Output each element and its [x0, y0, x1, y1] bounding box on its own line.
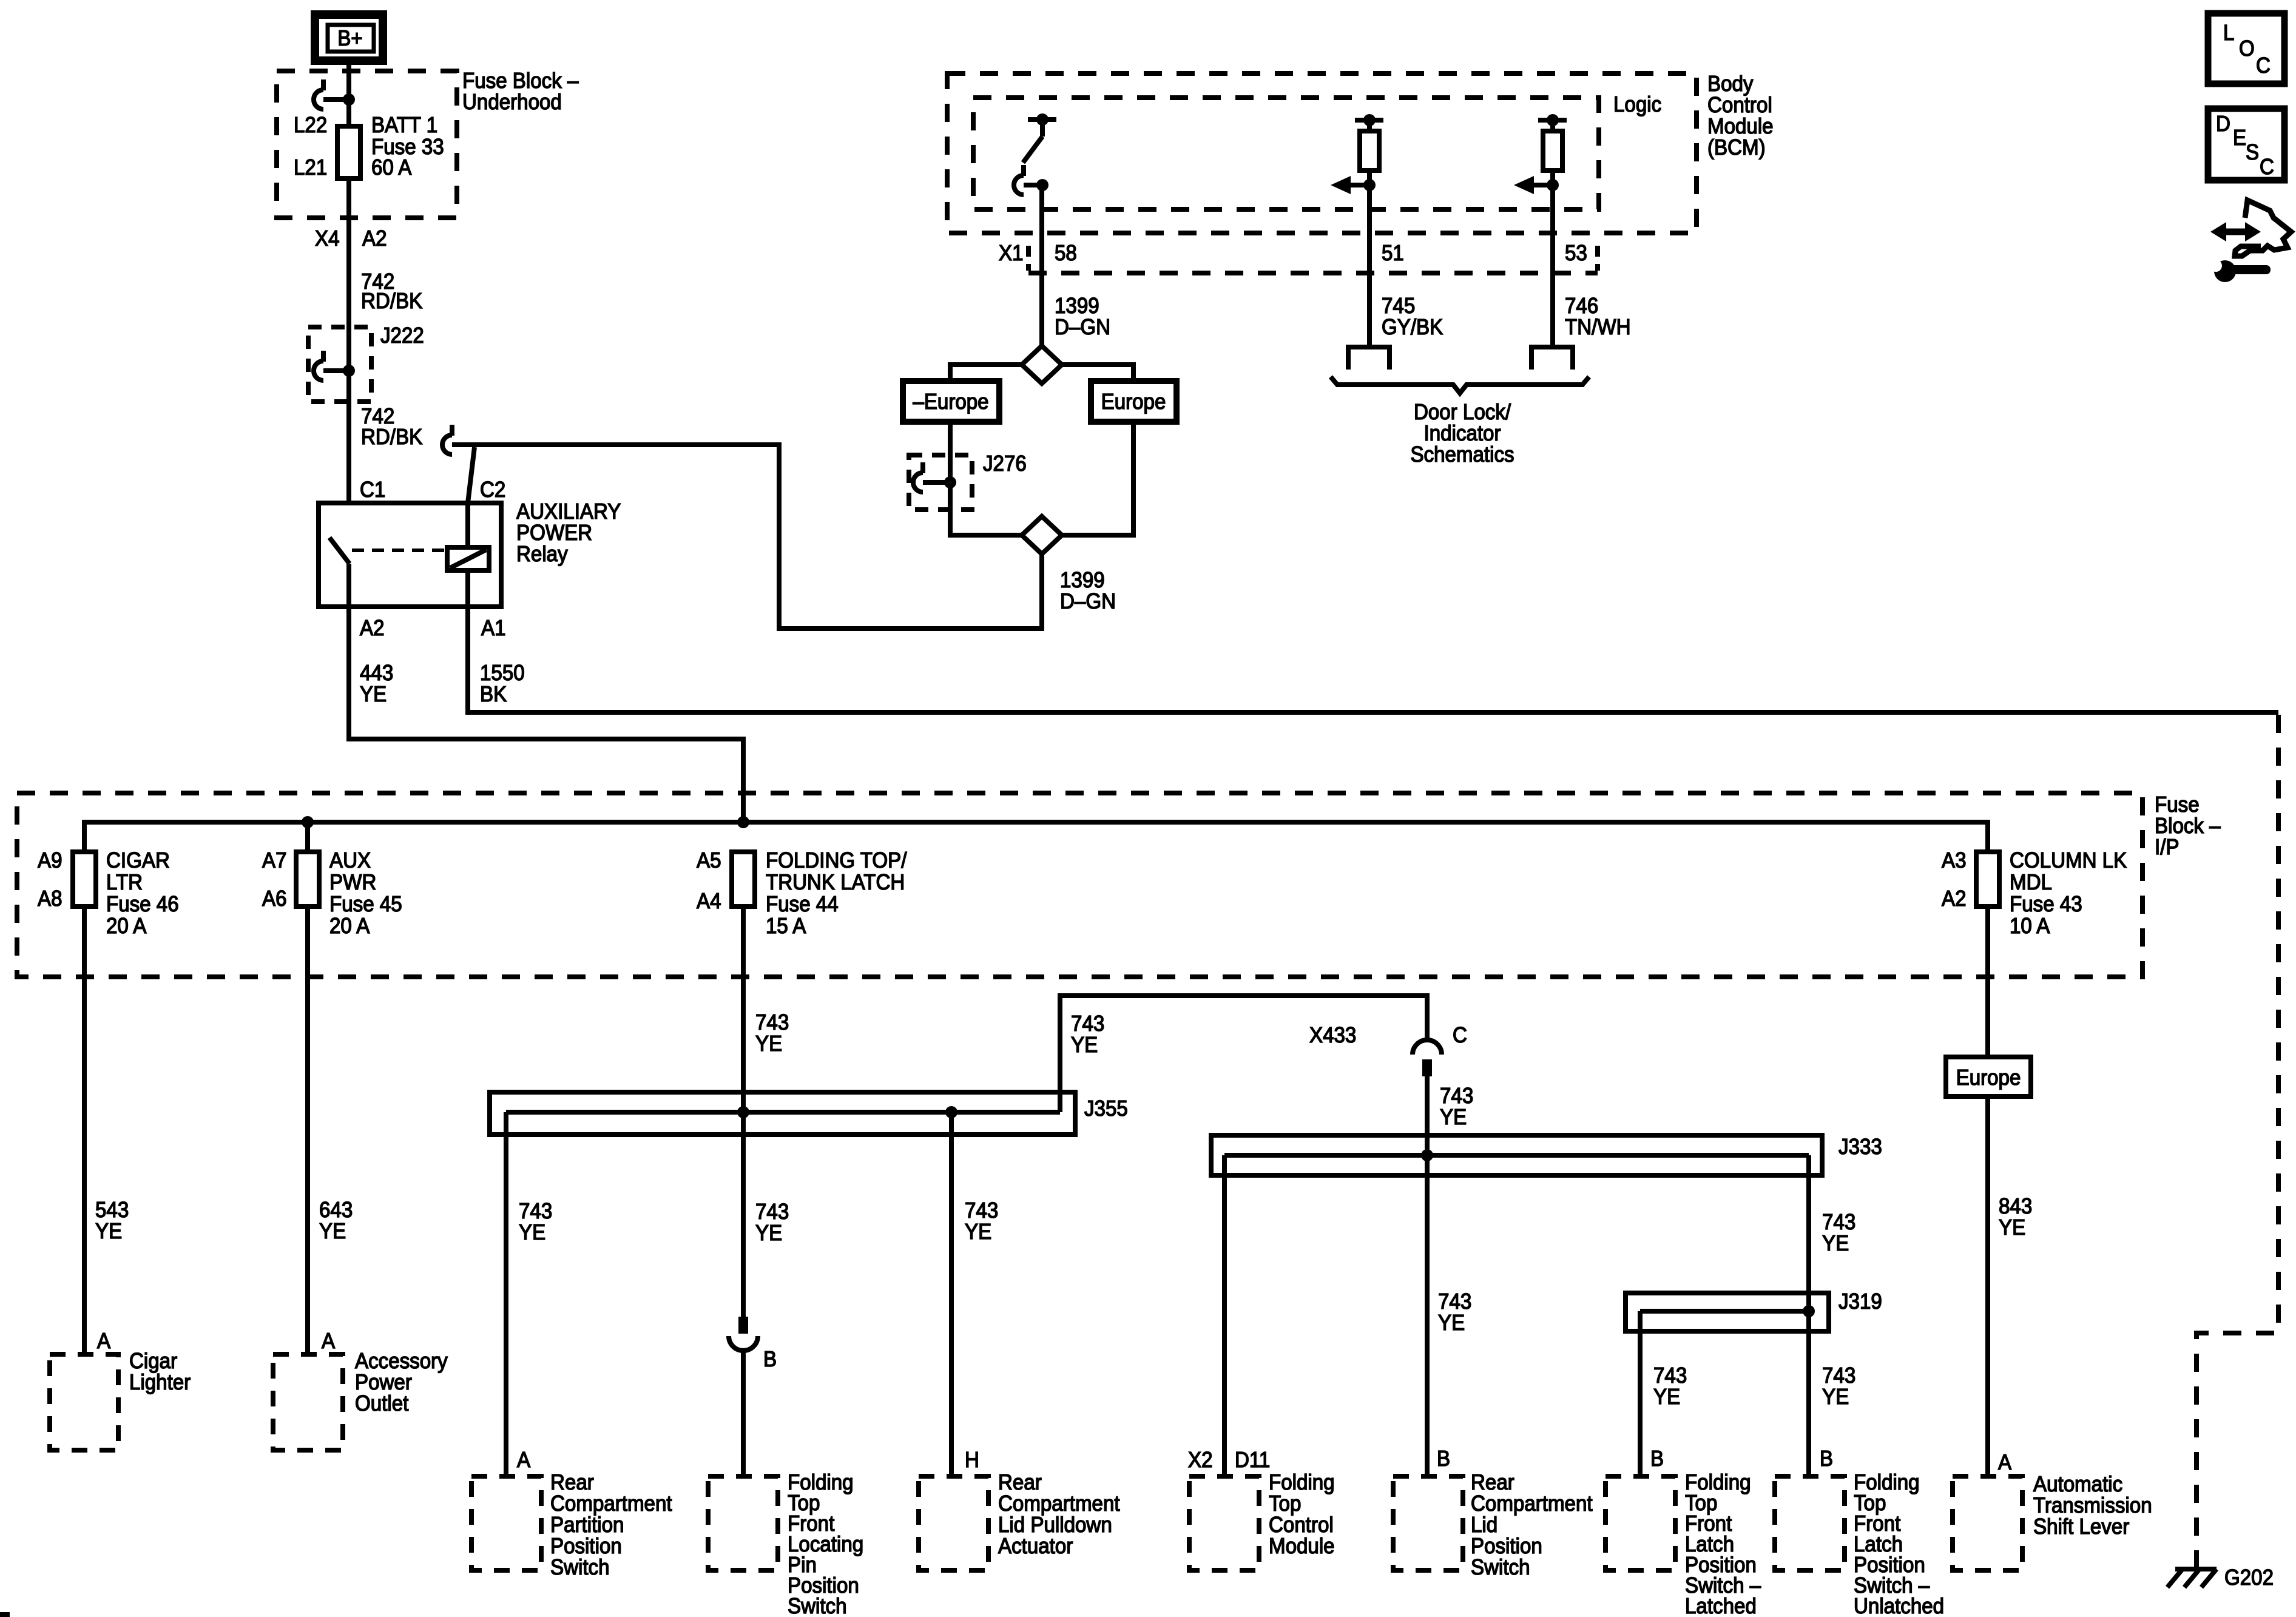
svg-text:Europe: Europe	[1101, 390, 1166, 414]
svg-text:J276: J276	[983, 452, 1027, 476]
svg-text:BATT 1: BATT 1	[371, 113, 437, 138]
svg-text:B: B	[763, 1348, 777, 1372]
svg-text:Module: Module	[1707, 115, 1774, 139]
svg-text:B: B	[1650, 1447, 1664, 1471]
svg-text:POWER: POWER	[516, 521, 592, 545]
svg-text:Automatic: Automatic	[2033, 1473, 2122, 1497]
svg-text:Rear: Rear	[1471, 1471, 1514, 1495]
svg-text:743: 743	[1440, 1084, 1473, 1109]
svg-text:L: L	[2223, 21, 2234, 46]
svg-text:YE: YE	[95, 1220, 122, 1244]
svg-text:CIGAR: CIGAR	[106, 849, 170, 873]
svg-text:H: H	[965, 1448, 979, 1473]
svg-text:YE: YE	[1438, 1311, 1465, 1335]
svg-text:Partition: Partition	[550, 1513, 624, 1538]
svg-text:J355: J355	[1084, 1097, 1128, 1121]
svg-text:J222: J222	[380, 324, 424, 348]
svg-text:TN/WH: TN/WH	[1565, 316, 1630, 340]
svg-text:YE: YE	[965, 1220, 991, 1244]
svg-text:Relay: Relay	[516, 542, 568, 567]
svg-text:YE: YE	[755, 1221, 782, 1246]
svg-text:COLUMN LK: COLUMN LK	[2010, 849, 2127, 873]
svg-text:743: 743	[755, 1011, 789, 1035]
svg-text:Fuse 46: Fuse 46	[106, 893, 179, 917]
svg-text:A: A	[322, 1329, 335, 1354]
svg-text:BK: BK	[480, 683, 507, 707]
svg-text:Folding: Folding	[1269, 1471, 1335, 1495]
svg-text:Position: Position	[550, 1534, 622, 1559]
svg-text:Control: Control	[1707, 93, 1772, 118]
svg-text:743: 743	[755, 1200, 789, 1224]
svg-text:(BCM): (BCM)	[1707, 136, 1766, 160]
svg-text:Lid: Lid	[1471, 1513, 1497, 1538]
svg-text:G202: G202	[2224, 1566, 2274, 1590]
svg-text:Body: Body	[1707, 72, 1754, 96]
svg-text:MDL: MDL	[2010, 871, 2052, 895]
svg-text:A7: A7	[262, 849, 286, 873]
svg-text:Fuse: Fuse	[2155, 793, 2200, 817]
svg-text:GY/BK: GY/BK	[1382, 316, 1443, 340]
svg-text:Transmission: Transmission	[2033, 1494, 2152, 1518]
svg-text:Rear: Rear	[550, 1471, 594, 1495]
svg-text:I/P: I/P	[2155, 836, 2179, 860]
svg-text:Accessory: Accessory	[355, 1349, 448, 1374]
svg-text:A2: A2	[360, 616, 384, 641]
svg-text:TRUNK LATCH: TRUNK LATCH	[766, 871, 905, 895]
svg-text:FOLDING TOP/: FOLDING TOP/	[766, 849, 907, 873]
svg-text:745: 745	[1382, 294, 1415, 319]
svg-text:51: 51	[1382, 241, 1404, 266]
svg-text:J333: J333	[1838, 1135, 1882, 1160]
svg-text:C2: C2	[480, 478, 505, 502]
svg-text:B+: B+	[337, 27, 362, 51]
svg-text:Unlatched: Unlatched	[1854, 1595, 1944, 1617]
svg-text:LTR: LTR	[106, 871, 143, 895]
svg-text:A: A	[1998, 1451, 2011, 1475]
svg-text:Actuator: Actuator	[998, 1534, 1073, 1559]
svg-text:Fuse 45: Fuse 45	[329, 893, 402, 917]
svg-text:Fuse Block –: Fuse Block –	[462, 69, 579, 93]
svg-text:Compartment: Compartment	[998, 1492, 1120, 1516]
svg-text:643: 643	[319, 1198, 353, 1223]
svg-text:YE: YE	[1822, 1232, 1849, 1256]
svg-text:YE: YE	[519, 1221, 545, 1245]
svg-text:–Europe: –Europe	[913, 390, 988, 414]
svg-text:743: 743	[1822, 1364, 1855, 1388]
svg-text:A2: A2	[1942, 887, 1966, 911]
svg-text:Switch: Switch	[550, 1556, 610, 1580]
svg-text:D11: D11	[1235, 1448, 1270, 1473]
svg-text:Door Lock/: Door Lock/	[1414, 400, 1511, 425]
svg-text:Outlet: Outlet	[355, 1392, 409, 1416]
svg-text:Compartment: Compartment	[550, 1492, 672, 1516]
svg-text:Schematics: Schematics	[1410, 443, 1514, 467]
svg-text:YE: YE	[360, 683, 387, 707]
svg-text:1399: 1399	[1055, 294, 1099, 319]
svg-text:C1: C1	[360, 478, 385, 502]
svg-text:YE: YE	[1440, 1106, 1467, 1130]
svg-text:D–GN: D–GN	[1055, 316, 1110, 340]
svg-text:E: E	[2233, 126, 2246, 150]
svg-text:15 A: 15 A	[766, 914, 806, 939]
svg-text:X1: X1	[999, 241, 1023, 266]
svg-text:A8: A8	[38, 887, 62, 911]
svg-text:743: 743	[519, 1200, 552, 1224]
svg-text:A5: A5	[697, 849, 721, 873]
svg-text:Switch: Switch	[1471, 1556, 1530, 1580]
svg-text:A4: A4	[697, 890, 721, 914]
svg-text:C: C	[2256, 54, 2271, 78]
svg-text:Shift Lever: Shift Lever	[2033, 1515, 2129, 1539]
svg-text:B: B	[1820, 1447, 1833, 1471]
svg-text:Power: Power	[355, 1371, 412, 1395]
svg-text:743: 743	[1071, 1012, 1104, 1036]
svg-text:O: O	[2239, 37, 2255, 61]
svg-text:AUX: AUX	[329, 849, 371, 873]
svg-text:L21: L21	[294, 156, 327, 180]
svg-text:X4: X4	[315, 227, 339, 251]
svg-text:Switch: Switch	[788, 1595, 847, 1617]
svg-text:Cigar: Cigar	[129, 1349, 177, 1374]
svg-text:Fuse 43: Fuse 43	[2010, 893, 2082, 917]
svg-text:60 A: 60 A	[371, 156, 411, 180]
svg-text:Lid Pulldown: Lid Pulldown	[998, 1513, 1112, 1538]
svg-text:Control: Control	[1269, 1513, 1334, 1538]
svg-text:53: 53	[1565, 241, 1587, 266]
svg-text:YE: YE	[319, 1220, 346, 1244]
svg-text:Compartment: Compartment	[1471, 1492, 1593, 1516]
svg-text:A3: A3	[1942, 849, 1966, 873]
svg-text:743: 743	[965, 1199, 998, 1223]
svg-text:A9: A9	[38, 849, 62, 873]
svg-text:D: D	[2216, 112, 2230, 137]
svg-text:1399: 1399	[1060, 569, 1105, 593]
svg-text:746: 746	[1565, 294, 1598, 319]
svg-text:C: C	[2260, 155, 2274, 180]
svg-text:58: 58	[1055, 241, 1077, 266]
svg-text:A: A	[97, 1329, 110, 1354]
svg-text:743: 743	[1822, 1210, 1855, 1235]
svg-text:Indicator: Indicator	[1424, 422, 1501, 446]
svg-text:20 A: 20 A	[106, 914, 146, 939]
svg-text:Top: Top	[1269, 1492, 1301, 1516]
svg-text:543: 543	[95, 1198, 129, 1223]
svg-text:S: S	[2246, 141, 2259, 165]
svg-text:843: 843	[1999, 1195, 2032, 1219]
svg-text:Latched: Latched	[1685, 1595, 1757, 1617]
svg-text:X2: X2	[1188, 1448, 1212, 1473]
svg-text:Position: Position	[1471, 1534, 1542, 1559]
svg-text:A6: A6	[262, 887, 286, 911]
svg-text:YE: YE	[755, 1032, 782, 1056]
svg-text:1550: 1550	[480, 661, 525, 686]
svg-text:Module: Module	[1269, 1534, 1335, 1559]
svg-text:Logic: Logic	[1613, 93, 1661, 117]
svg-text:743: 743	[1653, 1364, 1687, 1388]
svg-text:D–GN: D–GN	[1060, 590, 1116, 614]
svg-text:Lighter: Lighter	[129, 1371, 191, 1395]
svg-text:743: 743	[1438, 1290, 1471, 1314]
svg-text:Europe: Europe	[1956, 1066, 2021, 1090]
svg-text:RD/BK: RD/BK	[361, 289, 422, 314]
svg-text:20 A: 20 A	[329, 914, 370, 939]
svg-text:C: C	[1453, 1024, 1467, 1048]
svg-text:Fuse 44: Fuse 44	[766, 893, 839, 917]
svg-text:Block –: Block –	[2155, 814, 2221, 839]
svg-text:A2: A2	[362, 227, 387, 251]
svg-text:A: A	[517, 1448, 530, 1473]
svg-text:J319: J319	[1838, 1290, 1882, 1314]
svg-text:YE: YE	[1653, 1385, 1680, 1409]
svg-text:10 A: 10 A	[2010, 914, 2050, 939]
svg-text:X433: X433	[1309, 1024, 1356, 1048]
svg-text:YE: YE	[1071, 1033, 1098, 1058]
svg-text:YE: YE	[1999, 1216, 2025, 1240]
svg-text:443: 443	[360, 661, 393, 686]
svg-text:L22: L22	[294, 113, 327, 138]
svg-text:A1: A1	[481, 616, 505, 641]
svg-text:B: B	[1437, 1447, 1450, 1471]
svg-text:RD/BK: RD/BK	[361, 425, 422, 450]
svg-text:PWR: PWR	[329, 871, 376, 895]
svg-text:Underhood: Underhood	[462, 90, 562, 115]
svg-text:Rear: Rear	[998, 1471, 1042, 1495]
svg-text:YE: YE	[1822, 1385, 1849, 1409]
svg-text:AUXILIARY: AUXILIARY	[516, 500, 621, 524]
